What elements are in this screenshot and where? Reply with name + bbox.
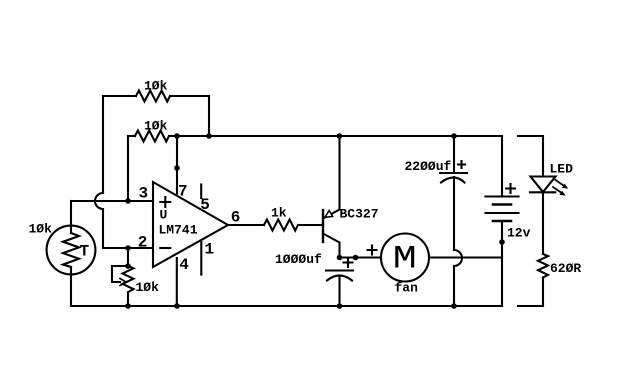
battery B1 12v <box>486 136 531 306</box>
wire pin3 input <box>71 200 153 202</box>
svg-text:5: 5 <box>200 196 210 214</box>
junction pin4 on ground rail <box>174 303 180 309</box>
thermistor T 10k <box>29 201 96 306</box>
svg-text:22ØØuf: 22ØØuf <box>405 159 452 174</box>
node B pin2 input <box>125 245 131 251</box>
junction C2 on ground rail <box>451 303 457 309</box>
svg-text:4: 4 <box>179 256 189 274</box>
resistor R4 620R <box>518 254 581 306</box>
pin 4 V- <box>177 256 190 306</box>
wire +12V rail <box>169 135 502 137</box>
junction pin7 on +12V rail <box>174 133 180 139</box>
svg-text:1Øk: 1Øk <box>136 280 160 295</box>
potentiometer 10k trimmer <box>112 248 159 306</box>
op-amp U1 LM741 <box>153 182 228 267</box>
svg-text:LM741: LM741 <box>159 223 198 238</box>
svg-text:1Øk: 1Øk <box>144 79 168 94</box>
svg-text:T: T <box>80 243 90 261</box>
pin 7 V+ <box>177 136 188 201</box>
resistor R1 10k feedback top <box>103 79 209 137</box>
resistor R2 10k to rail <box>128 119 169 142</box>
svg-text:12v: 12v <box>507 226 531 241</box>
capacitor C1 1000uf <box>275 252 353 306</box>
junction battery negative <box>499 239 505 245</box>
wire R2 left leg down to pin3 node <box>127 136 129 201</box>
junction C2 branch on +12V rail <box>451 133 457 139</box>
junction pot on ground rail <box>125 303 131 309</box>
pin 5 stub <box>200 185 210 215</box>
wire ground rail bottom <box>71 305 502 307</box>
svg-text:1ØØØuf: 1ØØØuf <box>275 252 322 267</box>
svg-text:1: 1 <box>205 241 215 259</box>
wire left vertical from R1 to pin2 with hop <box>95 96 153 248</box>
pin 1 stub <box>201 241 214 275</box>
transistor Q1 BC327 PNP <box>323 136 379 258</box>
svg-text:1Øk: 1Øk <box>29 222 53 237</box>
svg-text:1Øk: 1Øk <box>144 119 168 134</box>
svg-text:7: 7 <box>178 183 188 201</box>
junction R1 right end on +12V rail <box>206 133 212 139</box>
svg-text:1k: 1k <box>271 206 287 221</box>
svg-text:62ØR: 62ØR <box>550 261 581 276</box>
svg-text:6: 6 <box>231 209 241 227</box>
motor M fan <box>368 234 430 296</box>
capacitor C2 2200uf with hop over motor wire <box>405 136 468 306</box>
svg-text:M: M <box>393 241 417 277</box>
svg-text:fan: fan <box>395 281 419 296</box>
wire motor line right <box>429 256 502 258</box>
junction collector / C1 top <box>337 255 343 261</box>
svg-text:LED: LED <box>550 162 574 177</box>
junction pot wiper top <box>125 263 131 269</box>
junction C1 on ground rail <box>337 303 343 309</box>
junction on motor wire <box>353 255 359 261</box>
svg-text:2: 2 <box>138 234 148 252</box>
junction emitter branch on +12V rail <box>337 133 343 139</box>
svg-text:3: 3 <box>139 185 149 203</box>
wire motor line left <box>340 256 382 258</box>
resistor R3 1k <box>228 206 323 231</box>
svg-text:BC327: BC327 <box>340 207 379 222</box>
node A pin3 input <box>125 198 131 204</box>
junction on pin7 lead <box>174 165 180 171</box>
LED D1 branch <box>518 136 573 254</box>
svg-text:U: U <box>160 208 168 223</box>
